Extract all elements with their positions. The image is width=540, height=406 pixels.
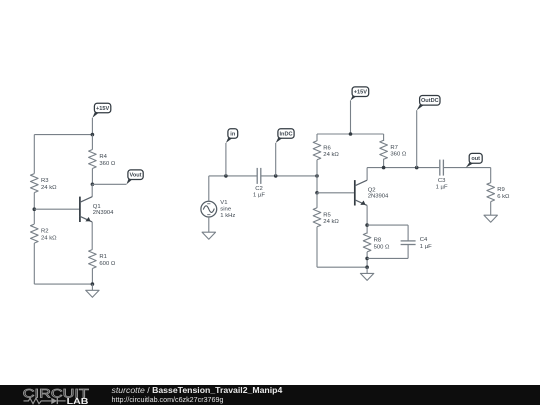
wire base left (34, 208, 80, 210)
resistor R6 (313, 141, 339, 160)
capacitor C3 (436, 160, 448, 191)
resistor R3 (31, 174, 58, 193)
svg-text:R8: R8 (374, 237, 382, 243)
wire input node to base node (316, 176, 318, 193)
svg-text:OutDC: OutDC (421, 98, 439, 104)
node InDC flag junction (274, 174, 278, 178)
svg-text:2N3904: 2N3904 (93, 210, 114, 216)
wire out corner down to R9 (490, 168, 492, 183)
wire bottom rail right circuit (317, 266, 367, 268)
node bottom rail ground junction (91, 282, 95, 286)
node divider input junction (315, 174, 319, 178)
wire collector rail (367, 167, 439, 169)
wire top rail right circuit (317, 133, 384, 135)
ground left circuit (86, 284, 99, 297)
wire top rail left circuit (34, 134, 92, 136)
transistor Q2 (355, 180, 389, 205)
node bottom rail ground junction right (365, 265, 369, 269)
wire Q2 collector up (366, 168, 368, 181)
svg-text:24 kΩ: 24 kΩ (41, 235, 57, 241)
svg-text:InDC: InDC (279, 131, 292, 137)
node R7 collector junction (382, 166, 386, 170)
footer bar (0, 385, 540, 405)
ground R9 (484, 209, 497, 222)
wire rail to R6 (316, 134, 318, 141)
svg-text:600 Ω: 600 Ω (99, 261, 115, 267)
resistor R4 (89, 150, 116, 169)
svg-text:360 Ω: 360 Ω (390, 152, 406, 158)
wire R7 to collector rail (383, 159, 385, 168)
net flag OutDC (417, 96, 440, 168)
wire R8 to bottom node (366, 252, 368, 267)
node Vout collector junction (91, 183, 95, 187)
wire base to Q2 (317, 192, 355, 194)
svg-text:6 kΩ: 6 kΩ (497, 194, 510, 200)
voltage source V1 sine (201, 200, 236, 219)
node R8 C4 bottom junction (365, 257, 369, 261)
wire left column R2 to bottom rail (33, 243, 35, 284)
resistor R1 (89, 250, 116, 269)
svg-text:R5: R5 (323, 212, 331, 218)
power flag +15V left (92, 103, 110, 134)
net flag in (226, 129, 238, 176)
ground V1 (202, 217, 215, 239)
wire R4 to collector node (91, 169, 93, 185)
wire V1 up (208, 176, 210, 201)
ground right circuit (360, 267, 373, 280)
resistor R8 (363, 233, 390, 252)
svg-text:C3: C3 (438, 178, 446, 184)
svg-text:R6: R6 (323, 145, 331, 151)
svg-text:out: out (471, 156, 480, 162)
resistor R2 (31, 224, 58, 243)
wire C4 branch down (407, 225, 409, 241)
net flag out (466, 153, 482, 167)
wire emitter node to C4 branch (367, 224, 408, 226)
wire base node to R5 (316, 193, 318, 208)
svg-text:+15V: +15V (354, 90, 367, 96)
svg-text:V1: V1 (220, 200, 227, 206)
net flag InDC (276, 129, 294, 176)
resistor R9 (487, 183, 510, 202)
svg-text:500 Ω: 500 Ω (374, 244, 390, 250)
resistor R7 (380, 140, 407, 159)
wire bottom rail left circuit (34, 283, 92, 285)
resistor R5 (313, 208, 339, 227)
node base junction (315, 191, 319, 195)
svg-text:1 µF: 1 µF (253, 193, 265, 199)
power flag +15V right (351, 87, 369, 134)
wire C2 to base column (261, 175, 317, 177)
node +15V rail junction (91, 133, 95, 137)
node base divider left (junction) (33, 207, 37, 211)
wire R6 to input node (316, 160, 318, 176)
svg-text:LAB: LAB (67, 396, 89, 406)
CircuitLab logo (22, 386, 112, 406)
wire Q1 collector up (91, 184, 93, 197)
svg-text:R7: R7 (390, 145, 398, 151)
wire C3 to out corner (443, 167, 490, 169)
logo resistor-diode wire (24, 398, 52, 404)
svg-text:1 µF: 1 µF (420, 244, 432, 250)
svg-text:R4: R4 (99, 154, 107, 160)
svg-text:24 kΩ: 24 kΩ (323, 219, 339, 225)
net flag Vout (127, 170, 144, 184)
svg-text:R9: R9 (497, 187, 505, 193)
svg-text:R2: R2 (41, 229, 49, 235)
wire R9 to ground (490, 202, 492, 209)
wire rail to R4 (91, 135, 93, 150)
svg-text:+15V: +15V (96, 106, 109, 112)
svg-text:360 Ω: 360 Ω (99, 161, 115, 167)
svg-text:1 µF: 1 µF (436, 184, 448, 190)
capacitor C4 (401, 237, 433, 250)
wire R1 to bottom rail (91, 269, 93, 285)
svg-text:in: in (230, 131, 236, 137)
wire collector node to Vout flag (92, 183, 126, 185)
wire C4 to bottom corner (407, 245, 409, 259)
svg-text:24 kΩ: 24 kΩ (41, 185, 57, 191)
node OutDC junction (415, 166, 419, 170)
svg-text:C4: C4 (420, 237, 428, 243)
wire R5 to bottom rail (316, 227, 318, 267)
svg-text:24 kΩ: 24 kΩ (323, 152, 339, 158)
wire rail to R7 (383, 134, 385, 141)
wire V1 to C2 (209, 175, 257, 177)
svg-text:2N3904: 2N3904 (368, 194, 389, 200)
svg-text:R3: R3 (41, 178, 49, 184)
wire emitter Q1 down (91, 222, 93, 250)
node in flag junction (224, 174, 228, 178)
svg-text:C2: C2 (255, 186, 263, 192)
wire C4 bottom to R8 (367, 257, 408, 259)
svg-text:1 kHz: 1 kHz (220, 213, 235, 219)
node +15V rail junction right (349, 132, 353, 136)
svg-text:R1: R1 (99, 254, 107, 260)
transistor Q1 (80, 197, 114, 222)
node emitter junction (365, 223, 369, 227)
wire Q2 emitter down (366, 205, 368, 233)
svg-text:Vout: Vout (130, 173, 142, 179)
wire left column R3 top (33, 135, 35, 174)
wire left column between R3 and R2 (33, 193, 35, 224)
svg-text:sine: sine (220, 207, 232, 213)
capacitor C2 (253, 168, 265, 199)
